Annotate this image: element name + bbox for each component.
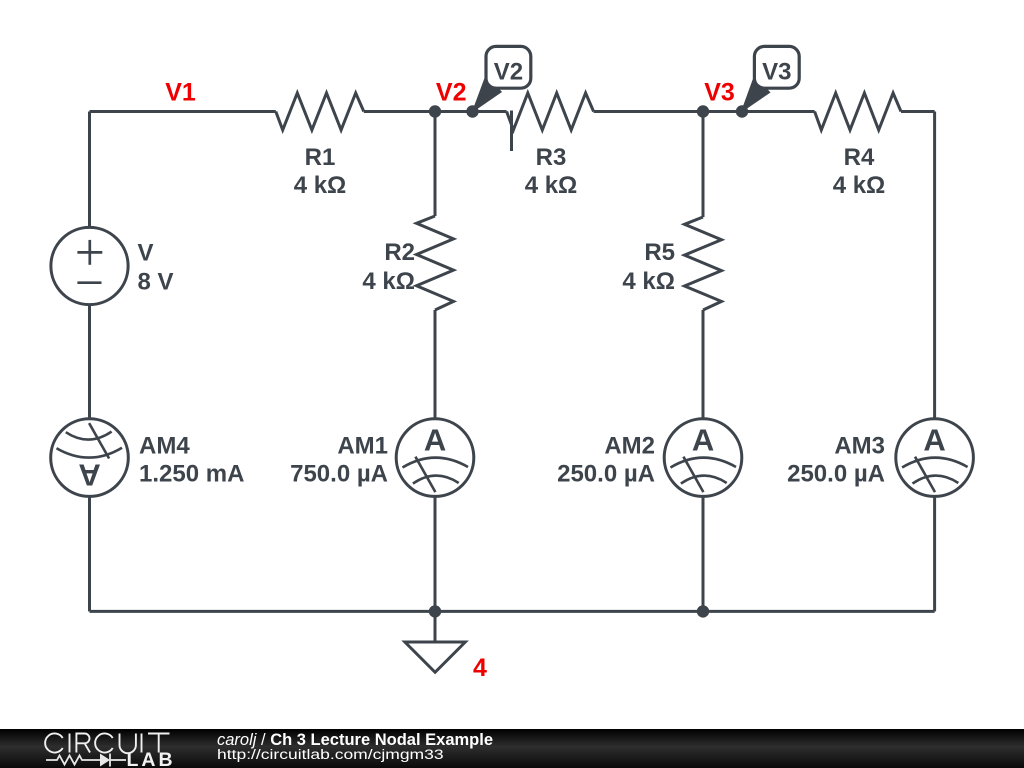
svg-text:A: A	[923, 423, 945, 458]
svg-text:R3: R3	[536, 144, 567, 171]
svg-text:V3: V3	[762, 59, 791, 86]
svg-text:A: A	[78, 458, 100, 493]
svg-text:8 V: 8 V	[138, 269, 174, 296]
label R4 4 kOhm	[833, 144, 886, 199]
svg-text:4: 4	[473, 654, 487, 682]
svg-text:4 kΩ: 4 kΩ	[362, 268, 415, 295]
svg-text:4 kΩ: 4 kΩ	[525, 172, 578, 199]
svg-text:AM4: AM4	[139, 433, 190, 460]
wire left: V1 down to source V	[88, 112, 91, 228]
wire node V3 down to R5	[702, 112, 705, 218]
svg-text:4 kΩ: 4 kΩ	[622, 268, 675, 295]
resistor R2	[417, 216, 454, 310]
svg-text:4 kΩ: 4 kΩ	[294, 172, 347, 199]
wire R2 to AM1	[434, 310, 437, 419]
wire bottom rail	[90, 610, 935, 613]
resistor R5	[685, 217, 722, 310]
wire right side down to AM3	[933, 112, 936, 419]
label AM4 1.250 mA	[139, 433, 244, 488]
label AM2 250.0 uA	[557, 433, 655, 488]
label V 8 V	[138, 240, 174, 296]
label R1 4 kOhm	[294, 144, 347, 199]
ammeter AM4	[51, 419, 129, 497]
wire AM2 to bottom rail	[702, 496, 705, 611]
resistor R3	[507, 93, 594, 130]
wire node V2 down to R2	[434, 112, 437, 217]
label AM3 250.0 uA	[787, 433, 885, 488]
footer bar	[0, 729, 1024, 768]
svg-text:V: V	[138, 240, 154, 267]
footer url text	[217, 746, 444, 763]
CircuitLab logo	[0, 729, 180, 768]
wire top: R3 to R4 through node V3	[594, 110, 815, 113]
svg-text:AM1: AM1	[337, 433, 388, 460]
svg-text:V1: V1	[165, 79, 196, 107]
junction node V3	[697, 105, 709, 117]
node label V3	[704, 79, 735, 107]
label R2 4 kOhm	[362, 239, 415, 295]
junction AM2 bottom node	[697, 605, 709, 617]
svg-text:R2: R2	[384, 239, 415, 266]
svg-text:A: A	[424, 423, 446, 458]
svg-text:R1: R1	[305, 144, 336, 171]
resistor R1	[276, 93, 364, 130]
svg-text:R4: R4	[844, 144, 875, 171]
voltmeter probe V2 flag	[472, 46, 531, 113]
node label V2	[436, 79, 467, 107]
label R3 4 kOhm	[525, 144, 578, 199]
junction probe V3 pin	[736, 105, 748, 117]
wire source V to AM4	[88, 305, 91, 419]
label AM1 750.0 uA	[290, 433, 388, 488]
voltage source V1	[51, 227, 128, 304]
svg-text:LAB: LAB	[127, 749, 176, 768]
svg-text:250.0 µA: 250.0 µA	[787, 461, 885, 488]
wire AM4 to bottom rail	[88, 496, 91, 611]
svg-text:V2: V2	[494, 59, 523, 86]
svg-text:AM2: AM2	[604, 433, 655, 460]
node 4 label	[473, 654, 487, 682]
svg-text:250.0 µA: 250.0 µA	[557, 461, 655, 488]
wire R5 to AM2	[702, 310, 705, 419]
svg-text:R5: R5	[644, 239, 675, 266]
resistor R4	[815, 93, 901, 130]
svg-text:750.0 µA: 750.0 µA	[290, 461, 388, 488]
wire AM1 to bottom rail	[434, 496, 437, 611]
wire ground stub	[434, 611, 437, 641]
svg-text:1.250 mA: 1.250 mA	[139, 461, 244, 488]
junction ground node	[429, 605, 441, 617]
label R5 4 kOhm	[622, 239, 675, 295]
svg-text:4 kΩ: 4 kΩ	[833, 172, 886, 199]
junction node V2	[429, 105, 441, 117]
svg-text:V3: V3	[704, 79, 735, 107]
ammeter AM1	[396, 419, 474, 497]
svg-text:V2: V2	[436, 79, 467, 107]
junction probe V2 pin	[466, 105, 478, 117]
footer title text	[217, 731, 493, 750]
voltmeter probe V3 flag	[741, 46, 800, 113]
svg-text:AM3: AM3	[834, 433, 885, 460]
wire AM3 to bottom right corner	[933, 496, 936, 611]
wire top: V1 node run from source to R1	[90, 110, 276, 113]
svg-text:A: A	[692, 423, 714, 458]
node label V1	[165, 79, 196, 107]
ammeter AM3	[896, 419, 974, 497]
wire stub dangling below node V2	[510, 111, 513, 152]
ammeter AM2	[664, 419, 742, 497]
ground	[405, 642, 465, 672]
wire top right corner	[901, 110, 935, 113]
wire top: R1 to R3 through node V2	[364, 110, 507, 113]
